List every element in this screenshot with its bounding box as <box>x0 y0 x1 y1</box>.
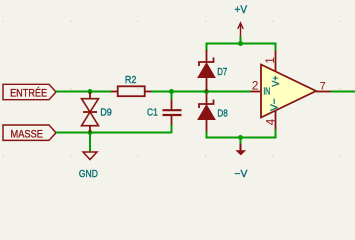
wire output <box>331 91 355 93</box>
power symbol +V <box>235 4 248 37</box>
wire top rail to +V <box>207 44 276 52</box>
junction node on MASSE at D9/GND <box>88 130 93 135</box>
wire GND stub <box>89 133 91 152</box>
op-amp U1 body <box>261 65 316 118</box>
wire bottom rail to -V <box>207 130 276 138</box>
svg-text:−V: −V <box>234 168 247 180</box>
svg-text:4: 4 <box>265 118 277 125</box>
op-amp pin 2 (IN) <box>251 78 271 97</box>
zener diode D7 <box>198 50 227 92</box>
wire C1 bottom stub <box>171 125 173 133</box>
svg-text:V−: V− <box>269 98 280 111</box>
svg-text:GND: GND <box>79 169 98 180</box>
svg-text:1: 1 <box>265 57 277 63</box>
resistor R2 <box>111 74 152 96</box>
global label ENTRÉE <box>3 84 56 99</box>
svg-text:MASSE: MASSE <box>11 129 44 141</box>
wire MASSE horizontal <box>56 132 172 134</box>
svg-text:+V: +V <box>235 4 248 16</box>
svg-text:7: 7 <box>320 80 326 92</box>
power symbol -V <box>234 138 247 181</box>
wire R2 to op-amp pin 2 <box>152 91 251 93</box>
op-amp pin 1 (V+) <box>265 51 282 87</box>
svg-text:C1: C1 <box>147 107 158 119</box>
svg-text:ENTRÉE: ENTRÉE <box>10 87 47 100</box>
capacitor C1 <box>147 99 182 125</box>
junction node on input at D7/D8 <box>204 89 209 94</box>
grid dots (decorative) <box>3 21 342 157</box>
svg-text:R2: R2 <box>125 74 137 86</box>
svg-text:IN: IN <box>263 86 270 97</box>
junction node on input at C1 <box>169 89 174 94</box>
junction node on input at D9 <box>88 89 93 94</box>
wire +V stub <box>240 37 242 44</box>
junction node on -V rail <box>238 135 243 140</box>
zener diode D8 <box>198 94 228 132</box>
global label MASSE <box>3 125 56 141</box>
svg-text:D8: D8 <box>217 107 228 119</box>
wire ENTRÉE to R2 <box>56 91 111 93</box>
op-amp pin 4 (V-) <box>265 98 280 129</box>
junction node on +V rail <box>238 41 243 46</box>
svg-text:D7: D7 <box>217 66 227 78</box>
svg-text:D9: D9 <box>100 107 112 119</box>
svg-text:2: 2 <box>252 78 259 92</box>
svg-text:V+: V+ <box>271 75 282 86</box>
op-amp pin 7 (output) <box>316 80 331 92</box>
TVS diode D9 <box>82 92 113 133</box>
ground symbol GND <box>79 152 98 180</box>
wire C1 top stub <box>171 92 173 100</box>
